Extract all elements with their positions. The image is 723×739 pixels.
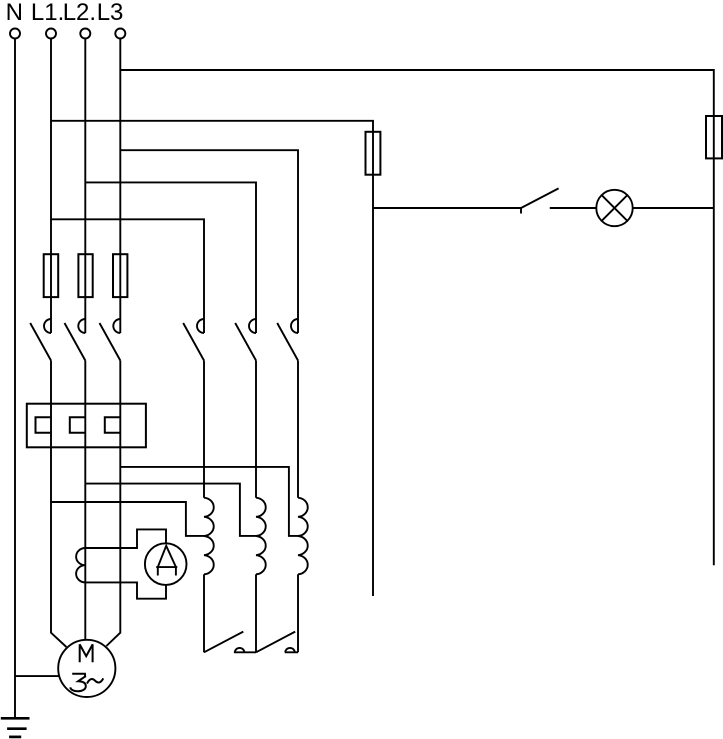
wire tap L3 to autotransformer T3 mid-tap [120, 467, 298, 536]
terminal L1 [46, 29, 56, 39]
wire L2 vertical to fuse/contact [84, 39, 86, 334]
ammeter letter A [156, 546, 177, 576]
wire tap L1 to autotransformer T1 mid-tap [51, 502, 204, 536]
wire L2 phase below contact to motor [84, 361, 86, 640]
autotransformer winding T2 [256, 498, 266, 575]
wire L3 phase below contact to motor [106, 361, 120, 647]
wire riser x256 below contact to coil T2 [255, 361, 257, 498]
fuse F3 (L3 phase) [113, 254, 127, 297]
terminal N [10, 29, 20, 39]
wire T3 bottom [297, 574, 299, 652]
net label L3 [97, 0, 124, 26]
wire riser x204 below contact to coil T1 [203, 361, 205, 498]
contactor main contact K1-3 (L3) [100, 319, 121, 361]
net label N [6, 0, 23, 26]
svg-text:L1.: L1. [31, 0, 64, 26]
star contact K3-1 fixed stub [234, 651, 256, 653]
motor M1 circle [58, 640, 115, 697]
wire L1 phase below contact to motor [51, 361, 66, 648]
svg-text:L3: L3 [97, 0, 124, 26]
current transformer winding on L2 [76, 548, 85, 582]
motor label tilde [87, 678, 103, 683]
wire L1 vertical to fuse/contact [50, 39, 52, 334]
star contact K3-2 contact arc [285, 648, 294, 652]
wire L1 branch to riser x204 [51, 219, 204, 333]
autotransformer winding T1 [204, 498, 214, 575]
wire L1 control feeder to left control fuse and down [51, 121, 373, 596]
fuse F2 (L2 phase) [78, 254, 92, 297]
contactor main contact K1-1 (L1) [30, 319, 51, 361]
wire lamp to right bus [633, 207, 714, 209]
terminal L2 [80, 29, 90, 39]
contactor contact K2-2 (riser x256) [235, 319, 256, 361]
motor letter M [80, 644, 93, 662]
wire L3 vertical to fuse/contact [119, 39, 121, 334]
star contact K3-1 blade [204, 632, 243, 653]
thermal overload relay FR body [27, 404, 146, 448]
wire riser x298 below contact to coil T3 [297, 361, 299, 498]
star contact K3-1 contact arc [235, 648, 244, 652]
star contact K3-2 blade [256, 632, 295, 653]
fuse F1 (L1 phase) [44, 254, 59, 297]
motor label 3 [70, 674, 86, 692]
wire L3 control bus to right fuse and down [120, 70, 714, 565]
contactor main contact K1-2 (L2) [65, 319, 86, 361]
star contact K3-2 fixed stub [285, 651, 298, 653]
overload heater element L1 [36, 417, 52, 433]
wire CT to ammeter top [85, 529, 166, 548]
wire CT to ammeter bottom [85, 582, 166, 598]
net label L1 [31, 0, 64, 26]
autotransformer winding T3 [298, 498, 308, 575]
wire switch to lamp [550, 207, 597, 209]
fuse F5 (control circuit right) [706, 116, 722, 158]
svg-text:L2.: L2. [63, 0, 96, 26]
contactor contact K2-1 (riser x204) [183, 319, 204, 361]
overload heater element L3 [105, 417, 121, 433]
overload heater element L2 [70, 417, 86, 433]
svg-text:N: N [6, 0, 23, 26]
ammeter P1 circle [145, 543, 187, 585]
terminal L3 [115, 29, 125, 39]
lamp HL1 [596, 190, 632, 226]
wire motor frame to earth [15, 675, 59, 677]
wire tap L2 to autotransformer T2 mid-tap [85, 484, 256, 536]
switch S1 in lamp branch [373, 188, 559, 213]
wire T1 bottom [203, 574, 205, 652]
fuse F4 (control circuit left) [366, 132, 381, 175]
wire L3 branch to riser x298 [120, 150, 298, 333]
contactor contact K2-3 (riser x298) [277, 319, 298, 361]
wire neutral N vertical [14, 39, 16, 719]
wire L2 branch to riser x256 [85, 182, 256, 333]
wire T2 bottom [255, 574, 257, 652]
net label L2 [63, 0, 96, 26]
ground symbol [1, 718, 30, 737]
